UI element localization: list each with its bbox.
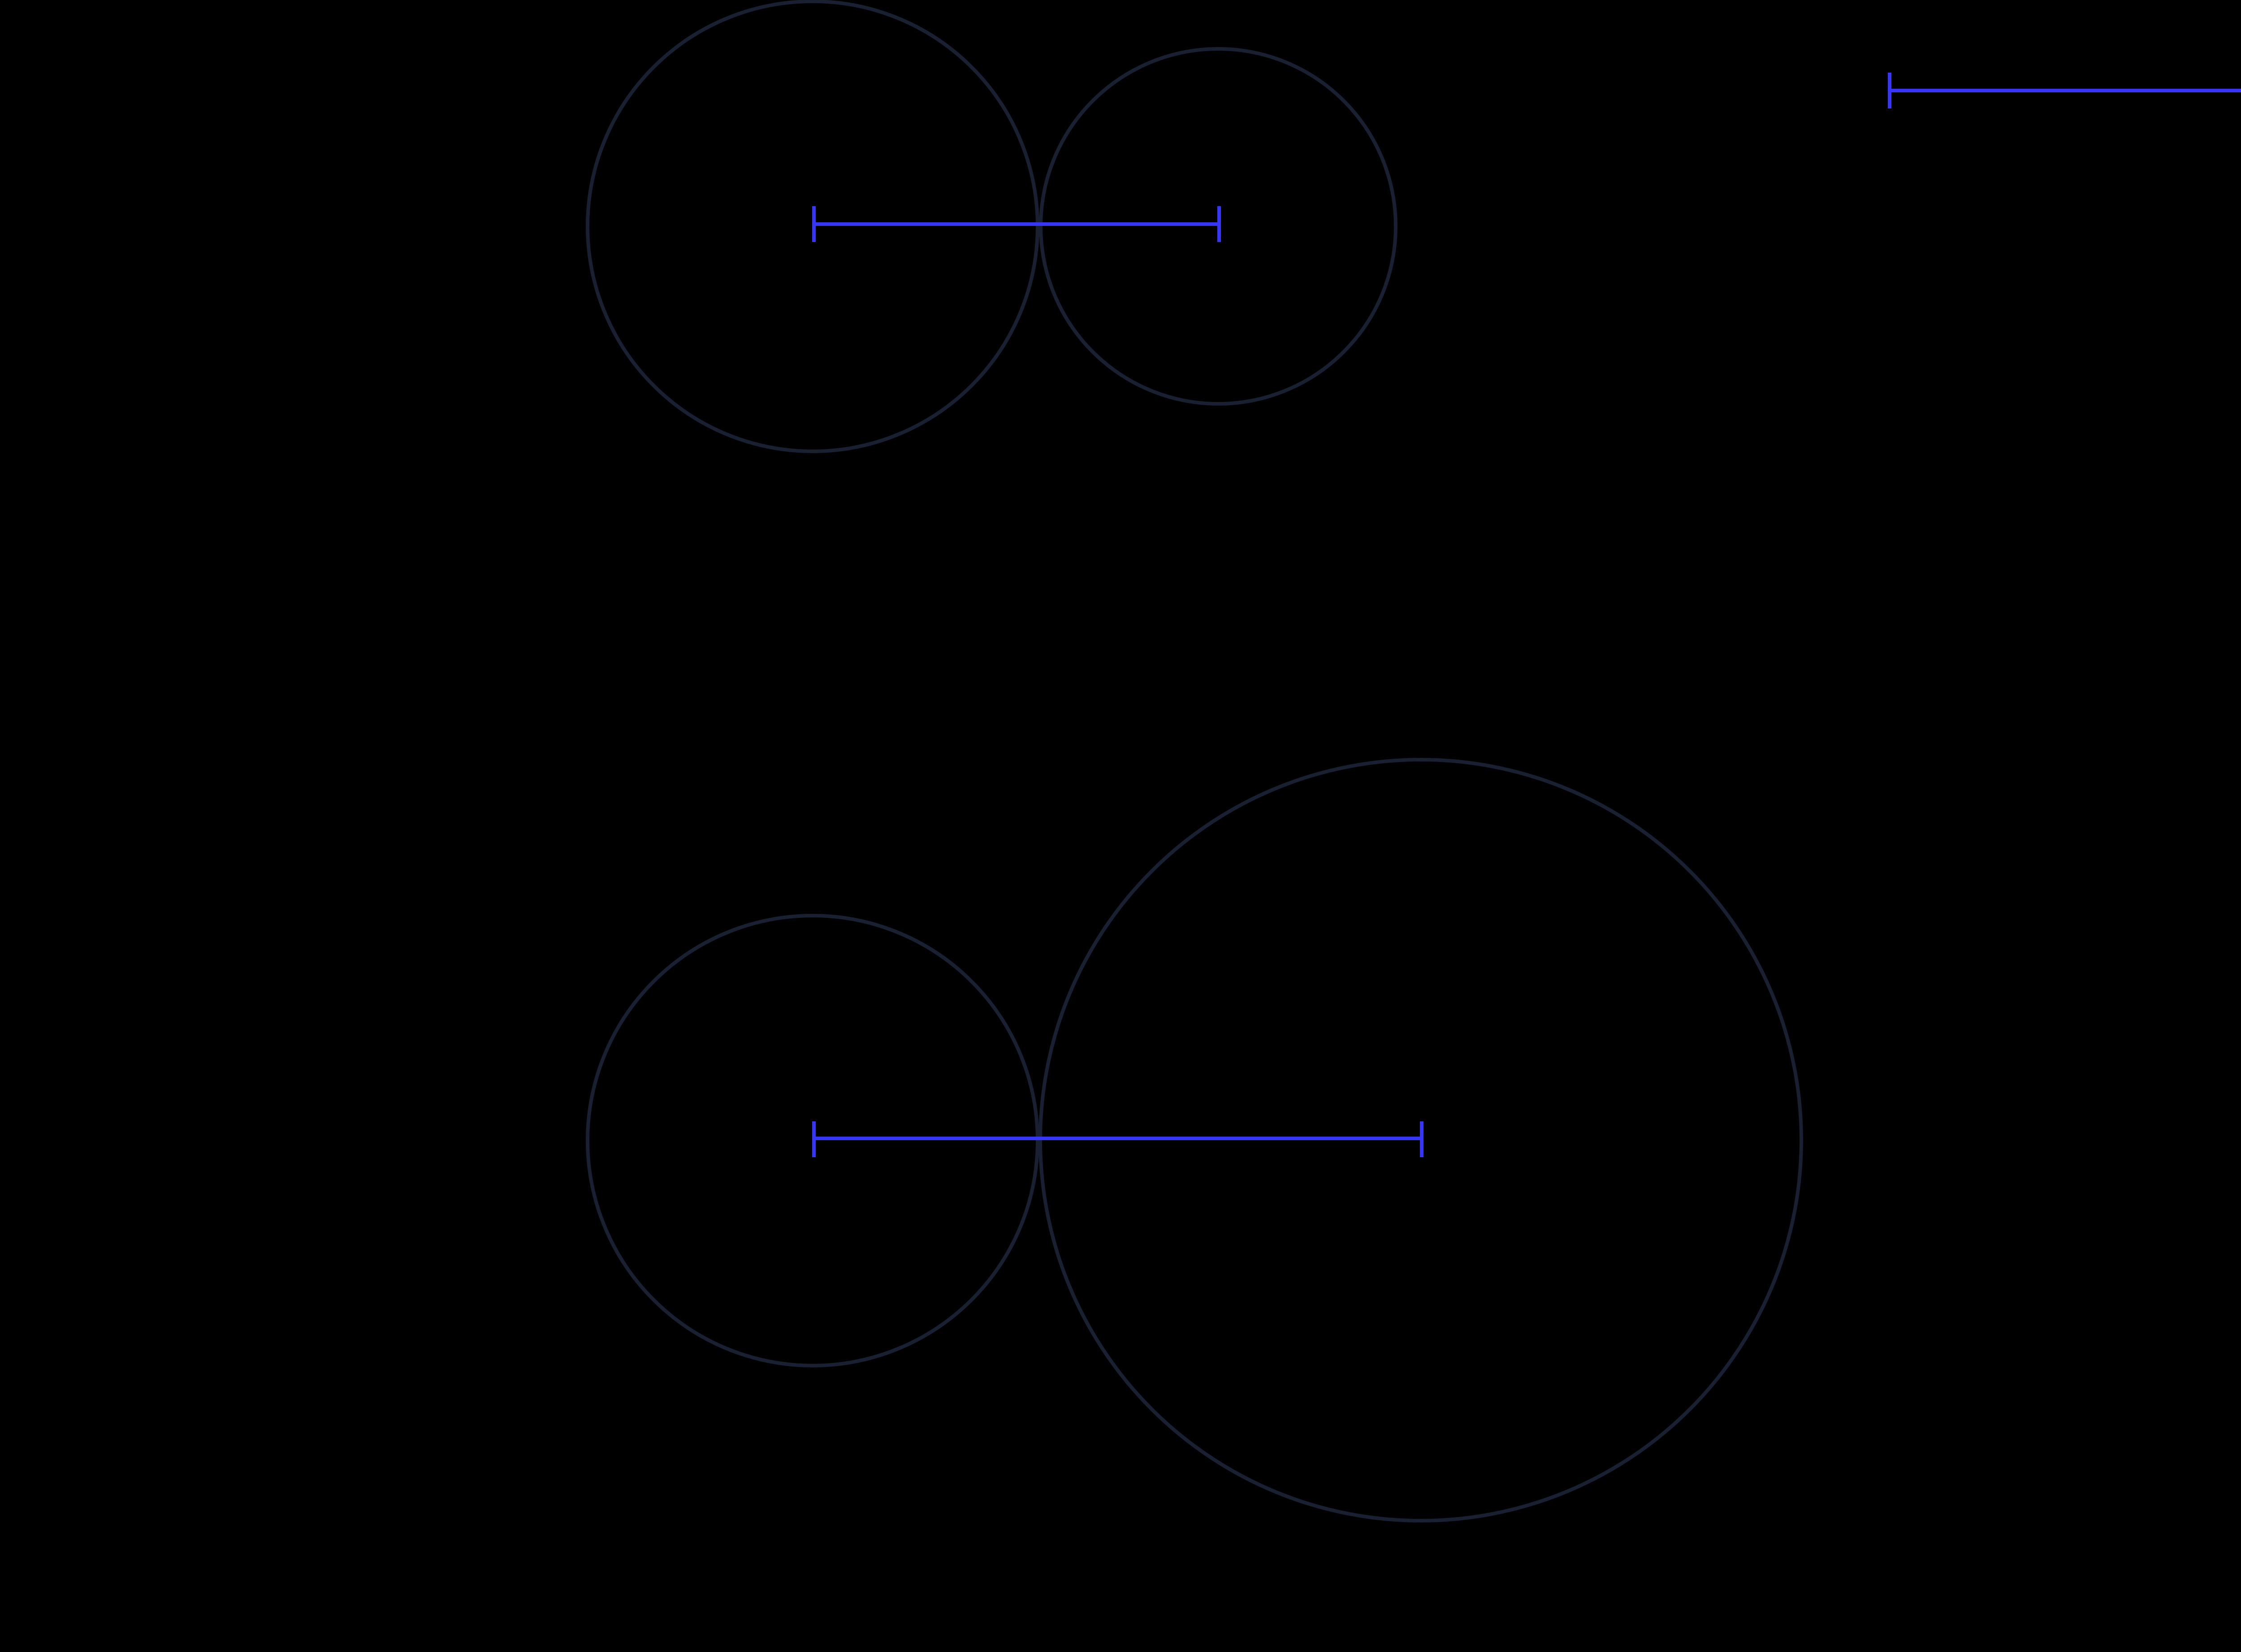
segment EF (top-right standalone segment) [1890, 73, 2241, 108]
circle A (top-left large circle) [588, 1, 1038, 451]
circle D (bottom-right large circle, tangent to C) [1040, 760, 1801, 1521]
circle C (bottom-left circle) [588, 916, 1038, 1366]
segment AB (top pair, connecting centers) [814, 206, 1219, 242]
circle B (top-right smaller circle, tangent to A) [1041, 49, 1396, 404]
segment CD (bottom pair, connecting centers) [814, 1121, 1422, 1157]
